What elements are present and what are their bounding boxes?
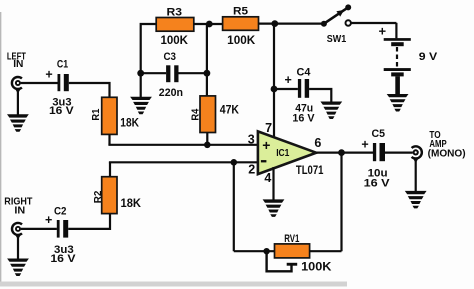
svg-text:+: + [262, 137, 270, 153]
op-amp IC1 [258, 131, 316, 174]
label LEFT IN [7, 51, 26, 71]
label C4 [285, 67, 316, 125]
capacitor C2 [57, 220, 68, 238]
wire jack to C1 [21, 82, 58, 84]
svg-text:C1: C1 [57, 58, 68, 70]
svg-text:4: 4 [264, 171, 271, 185]
svg-text:18K: 18K [120, 118, 139, 130]
wire C2 to R2 bottom [68, 214, 110, 229]
capacitor C1 [58, 74, 69, 91]
wire right jack ground stem [17, 236, 19, 259]
svg-text:220n: 220n [159, 87, 183, 99]
svg-text:16 V: 16 V [364, 177, 391, 189]
label R3 100K [161, 6, 189, 47]
wire R3R5 junction down to C3/R4 [206, 24, 208, 96]
capacitor C5 [373, 143, 413, 161]
scan border bottom band [0, 282, 347, 287]
wire feedback vertical down to RV1 [233, 162, 235, 251]
wire R1 bottom [108, 134, 110, 144]
ground under battery [387, 94, 409, 112]
node C3 right junction [204, 70, 211, 77]
svg-text:+: + [361, 137, 368, 151]
ground under C3 left rail [130, 97, 152, 115]
node R3/R5 junction [206, 21, 213, 28]
resistor R2 [102, 177, 117, 214]
wire pin3 horizontal net [108, 144, 258, 146]
wire output down to RV1 right [340, 153, 342, 252]
ground under C4 [320, 102, 342, 120]
svg-text:100K: 100K [227, 35, 256, 47]
svg-text:100K: 100K [301, 261, 332, 273]
svg-text:18K: 18K [121, 198, 142, 210]
wire left jack ground stem [17, 90, 19, 115]
svg-text:2: 2 [248, 163, 255, 177]
jack J-left (LEFT IN) [12, 77, 22, 94]
svg-text:+: + [379, 23, 387, 38]
svg-text:+: + [45, 213, 52, 227]
svg-text:SW1: SW1 [327, 33, 347, 45]
wire jack to C2 [21, 228, 57, 230]
svg-text:C2: C2 [54, 205, 67, 217]
wire top-left rail down from R3 [141, 24, 157, 97]
switch SW1 [321, 4, 397, 26]
svg-text:9 V: 9 V [419, 51, 438, 63]
svg-text:C3: C3 [164, 51, 177, 63]
resistor R5 [223, 17, 259, 31]
svg-text:(MONO): (MONO) [428, 148, 466, 160]
label TL071 [296, 165, 324, 177]
node C4 junction [271, 86, 278, 93]
svg-text:16 V: 16 V [50, 253, 76, 265]
label RIGHT IN [4, 196, 33, 217]
wire op-amp output [316, 152, 373, 154]
svg-text:6: 6 [314, 136, 321, 150]
wire R4 bottom stem [206, 133, 208, 145]
svg-text:+: + [285, 73, 292, 87]
svg-text:RV1: RV1 [284, 233, 299, 245]
label R2 18K [92, 190, 142, 209]
svg-text:C5: C5 [372, 128, 386, 140]
ground under output jack [405, 191, 427, 209]
label C1 [45, 58, 74, 117]
svg-text:R1: R1 [90, 108, 102, 120]
wire R2 top [109, 162, 111, 176]
svg-text:3: 3 [248, 133, 255, 147]
svg-text:IN: IN [14, 205, 25, 217]
label C5 [361, 128, 390, 189]
svg-text:IC1: IC1 [276, 147, 289, 159]
svg-text:R2: R2 [92, 190, 104, 203]
node pin7 rail junction [271, 20, 278, 27]
svg-text:47K: 47K [220, 105, 240, 117]
label SW1 [327, 33, 347, 45]
svg-text:16 V: 16 V [292, 112, 315, 124]
label R4 47K [189, 105, 239, 121]
node C3 left junction [137, 70, 144, 77]
svg-text:IN: IN [13, 58, 23, 70]
label R5 100K [227, 6, 256, 47]
wire RV1 left [234, 250, 275, 252]
wire pin2 horizontal net [109, 161, 259, 163]
label C2 [45, 205, 76, 265]
node R4 junction on pin3 net [204, 142, 211, 149]
capacitor C3 [141, 65, 207, 82]
label battery + and 9 V [379, 23, 438, 63]
wire R5 to switch [259, 23, 323, 25]
svg-text:100K: 100K [161, 35, 189, 47]
svg-text:R4: R4 [189, 108, 201, 120]
ground under LEFT IN jack [7, 114, 29, 132]
svg-text:R5: R5 [233, 6, 248, 18]
wire RV1 right [310, 250, 342, 252]
wire output jack ground stem [415, 160, 417, 192]
label RV1 100K [284, 233, 332, 274]
ground under op-amp pin4 [263, 199, 285, 217]
svg-text:C4: C4 [297, 67, 312, 79]
svg-text:R3: R3 [167, 6, 183, 18]
jack J-out (TO AMP) [412, 146, 422, 163]
node RV1 wiper junction [263, 248, 269, 254]
wire C1 to R1 top [69, 83, 110, 98]
capacitor C4 [274, 79, 331, 102]
node output junction [338, 149, 345, 156]
wire pin7 vertical rail [273, 24, 275, 139]
resistor R3 [156, 18, 194, 32]
node pin2/RV1 junction [231, 159, 238, 166]
jack J-right (RIGHT IN) [12, 223, 22, 240]
label C3 220n [159, 51, 183, 99]
wire RV1 wiper loop [267, 251, 298, 271]
svg-text:16 V: 16 V [49, 105, 74, 117]
label TO AMP (MONO) [428, 129, 466, 160]
pin number labels [248, 121, 322, 185]
svg-text:TL071: TL071 [296, 165, 324, 177]
potentiometer RV1 [275, 244, 310, 258]
battery B1 9V [384, 23, 411, 95]
ground under RIGHT IN jack [7, 259, 29, 277]
wire R3 to R5 [194, 23, 223, 25]
scan border left edge [0, 12, 2, 283]
resistor R4 [200, 96, 216, 133]
label R1 18K [90, 108, 139, 129]
svg-text:7: 7 [265, 121, 272, 135]
resistor R1 [102, 97, 117, 134]
svg-text:+: + [45, 67, 52, 81]
wire pin4 to ground [272, 167, 274, 200]
